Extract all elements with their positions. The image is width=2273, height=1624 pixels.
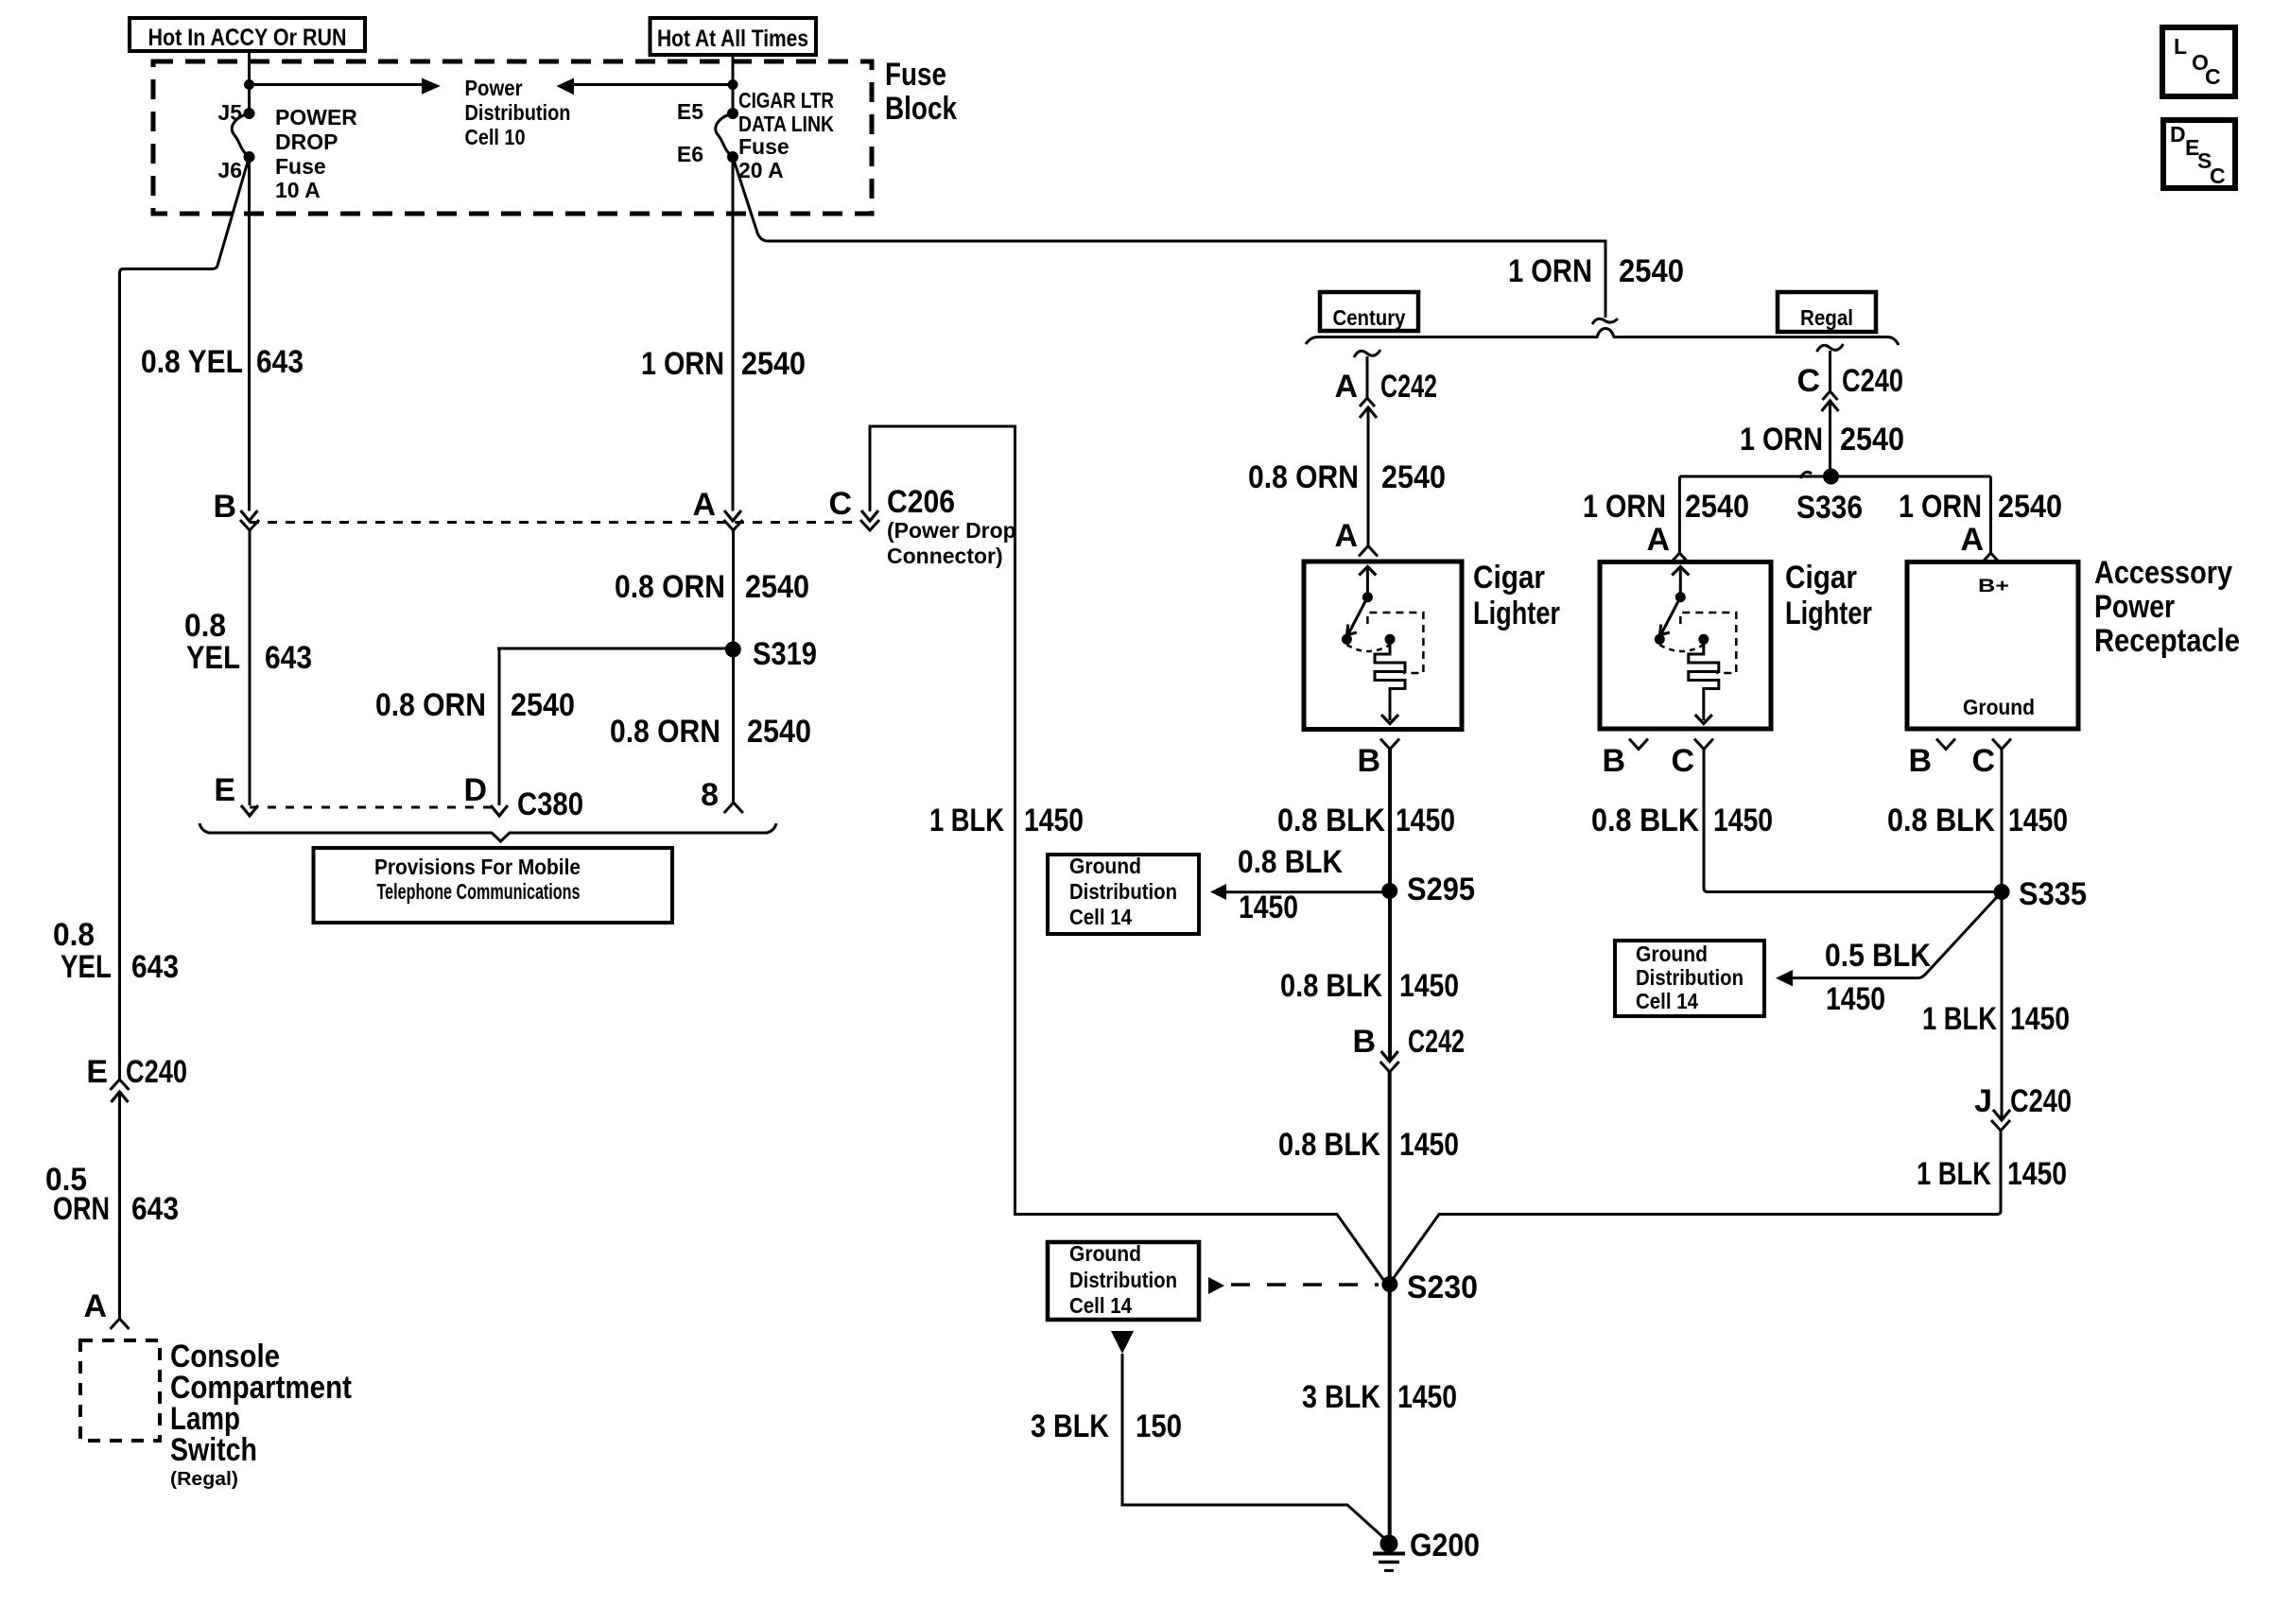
svg-text:20 A: 20 A <box>738 158 784 182</box>
svg-text:L: L <box>2174 34 2187 59</box>
svg-text:Fuse: Fuse <box>885 57 946 93</box>
svg-text:Cell 14: Cell 14 <box>1636 989 1698 1013</box>
svg-text:0.8 BLK: 0.8 BLK <box>1591 803 1699 838</box>
svg-text:S319: S319 <box>753 636 817 672</box>
svg-text:Ground: Ground <box>1636 942 1708 966</box>
svg-text:Power: Power <box>465 76 523 100</box>
svg-text:8: 8 <box>701 777 719 813</box>
svg-text:S230: S230 <box>1407 1270 1478 1305</box>
svg-text:POWER: POWER <box>275 105 357 130</box>
svg-text:0.8 BLK: 0.8 BLK <box>1280 968 1382 1004</box>
svg-text:Regal: Regal <box>1800 305 1853 330</box>
svg-text:C242: C242 <box>1380 369 1437 405</box>
svg-text:B: B <box>213 489 236 525</box>
svg-text:B+: B+ <box>1978 577 2009 596</box>
svg-text:150: 150 <box>1136 1408 1182 1444</box>
svg-text:0.8 ORN: 0.8 ORN <box>375 687 486 723</box>
svg-text:Connector): Connector) <box>887 544 1003 568</box>
svg-text:C: C <box>1796 363 1820 399</box>
svg-text:C242: C242 <box>1408 1024 1465 1060</box>
svg-text:1450: 1450 <box>1397 1379 1457 1415</box>
svg-text:2540: 2540 <box>1685 489 1749 525</box>
svg-text:1450: 1450 <box>1239 890 1298 925</box>
svg-text:0.8 ORN: 0.8 ORN <box>610 714 720 750</box>
svg-text:0.5 BLK: 0.5 BLK <box>1825 938 1931 974</box>
svg-text:2540: 2540 <box>1998 489 2062 525</box>
svg-text:C: C <box>1671 743 1694 779</box>
svg-text:Fuse: Fuse <box>738 134 789 159</box>
svg-text:(Power Drop: (Power Drop <box>887 518 1016 543</box>
svg-text:B: B <box>1908 743 1932 779</box>
svg-text:Cigar: Cigar <box>1785 560 1857 596</box>
svg-text:2540: 2540 <box>511 687 575 723</box>
svg-text:Distribution: Distribution <box>1069 1268 1177 1292</box>
svg-text:2540: 2540 <box>1619 253 1684 289</box>
svg-text:E: E <box>214 772 235 808</box>
svg-text:1450: 1450 <box>1713 803 1773 838</box>
svg-text:Provisions For Mobile: Provisions For Mobile <box>374 855 581 879</box>
svg-text:C240: C240 <box>1842 363 1903 399</box>
svg-text:Lighter: Lighter <box>1473 596 1560 631</box>
svg-text:Telephone Communications: Telephone Communications <box>377 879 581 904</box>
svg-text:1450: 1450 <box>1399 968 1459 1004</box>
svg-text:2540: 2540 <box>1381 459 1446 495</box>
svg-text:E5: E5 <box>677 99 703 124</box>
svg-text:G200: G200 <box>1410 1528 1480 1564</box>
svg-text:Distribution: Distribution <box>1636 965 1744 990</box>
svg-text:B: B <box>1602 743 1625 779</box>
svg-text:E: E <box>86 1054 108 1090</box>
svg-text:Fuse: Fuse <box>275 154 326 179</box>
svg-text:643: 643 <box>265 640 312 676</box>
svg-text:CIGAR LTR: CIGAR LTR <box>738 88 834 112</box>
svg-text:1 BLK: 1 BLK <box>929 803 1004 838</box>
svg-text:0.8 BLK: 0.8 BLK <box>1887 803 1995 838</box>
svg-text:A: A <box>1334 369 1358 405</box>
svg-text:1450: 1450 <box>1024 803 1084 838</box>
svg-text:Cell 10: Cell 10 <box>465 125 526 149</box>
svg-text:J6: J6 <box>217 158 242 182</box>
svg-text:ORN: ORN <box>53 1191 110 1227</box>
svg-text:0.8: 0.8 <box>53 917 95 953</box>
svg-text:1450: 1450 <box>1399 1127 1459 1163</box>
svg-text:YEL: YEL <box>186 640 240 676</box>
svg-text:2540: 2540 <box>745 569 809 605</box>
svg-text:Receptacle: Receptacle <box>2094 623 2240 659</box>
svg-text:1 BLK: 1 BLK <box>1917 1156 1991 1192</box>
svg-text:B: B <box>1352 1024 1376 1060</box>
svg-text:Century: Century <box>1333 305 1406 330</box>
svg-text:1450: 1450 <box>1396 803 1455 838</box>
svg-text:S335: S335 <box>2019 876 2087 912</box>
svg-text:C240: C240 <box>126 1054 187 1090</box>
svg-text:S336: S336 <box>1796 490 1863 526</box>
svg-text:2540: 2540 <box>741 346 806 382</box>
svg-text:1450: 1450 <box>2007 1156 2067 1192</box>
svg-text:A: A <box>1334 518 1358 554</box>
svg-text:1450: 1450 <box>1826 981 1885 1017</box>
svg-text:B: B <box>1357 743 1380 779</box>
svg-text:0.8 ORN: 0.8 ORN <box>615 569 725 605</box>
svg-text:0.8 BLK: 0.8 BLK <box>1277 803 1385 838</box>
svg-text:C: C <box>2210 164 2226 188</box>
svg-text:0.8 ORN: 0.8 ORN <box>1248 459 1359 495</box>
svg-text:A: A <box>83 1288 107 1324</box>
svg-text:Power: Power <box>2094 589 2175 625</box>
svg-text:Block: Block <box>885 91 957 127</box>
svg-text:J5: J5 <box>217 100 242 125</box>
svg-text:1 BLK: 1 BLK <box>1922 1001 1997 1037</box>
svg-text:C380: C380 <box>517 786 583 822</box>
svg-text:1 ORN: 1 ORN <box>641 346 724 382</box>
svg-text:A: A <box>1646 522 1670 558</box>
svg-text:Ground: Ground <box>1069 854 1141 878</box>
svg-text:643: 643 <box>131 1191 179 1227</box>
svg-text:1450: 1450 <box>2010 1001 2070 1037</box>
svg-text:C: C <box>1971 743 1995 779</box>
svg-text:1 ORN: 1 ORN <box>1740 422 1823 458</box>
svg-text:1 ORN: 1 ORN <box>1899 489 1982 525</box>
svg-text:(Regal): (Regal) <box>170 1469 238 1490</box>
svg-text:Distribution: Distribution <box>465 100 571 125</box>
svg-text:J: J <box>1974 1083 1992 1119</box>
svg-text:YEL: YEL <box>61 949 112 985</box>
svg-text:643: 643 <box>131 949 179 985</box>
svg-text:Hot At All Times: Hot At All Times <box>657 26 808 52</box>
svg-text:2540: 2540 <box>1840 422 1904 458</box>
svg-text:DROP: DROP <box>275 130 338 154</box>
svg-text:Ground: Ground <box>1963 695 2035 719</box>
svg-text:Cell 14: Cell 14 <box>1069 1293 1132 1318</box>
svg-text:1 ORN: 1 ORN <box>1583 489 1666 525</box>
svg-text:1 ORN: 1 ORN <box>1508 253 1592 289</box>
svg-text:0.8 BLK: 0.8 BLK <box>1238 844 1343 880</box>
svg-text:D: D <box>2170 122 2186 147</box>
svg-text:Accessory: Accessory <box>2094 555 2232 591</box>
svg-text:Cigar: Cigar <box>1473 560 1545 596</box>
svg-text:3 BLK: 3 BLK <box>1302 1379 1380 1415</box>
svg-text:3 BLK: 3 BLK <box>1031 1408 1109 1444</box>
svg-text:S295: S295 <box>1407 872 1475 907</box>
svg-text:C: C <box>2205 64 2221 89</box>
svg-text:C206: C206 <box>887 484 955 520</box>
svg-text:DATA LINK: DATA LINK <box>738 112 834 136</box>
svg-text:A: A <box>692 487 716 523</box>
svg-text:Distribution: Distribution <box>1069 879 1177 904</box>
svg-text:10 A: 10 A <box>275 178 321 202</box>
svg-text:Lighter: Lighter <box>1785 596 1872 631</box>
svg-text:0.8 YEL: 0.8 YEL <box>141 344 243 380</box>
svg-text:C: C <box>828 486 852 522</box>
svg-text:1450: 1450 <box>2008 803 2068 838</box>
svg-text:D: D <box>463 772 487 808</box>
svg-text:Cell 14: Cell 14 <box>1069 905 1132 929</box>
svg-text:E6: E6 <box>677 142 703 166</box>
svg-text:C240: C240 <box>2010 1083 2072 1119</box>
svg-text:0.8 BLK: 0.8 BLK <box>1278 1127 1380 1163</box>
svg-text:Switch: Switch <box>170 1432 257 1468</box>
svg-text:Ground: Ground <box>1069 1241 1141 1266</box>
svg-text:Hot In ACCY Or RUN: Hot In ACCY Or RUN <box>148 25 347 51</box>
svg-text:643: 643 <box>256 344 304 380</box>
svg-text:0.8: 0.8 <box>184 608 226 644</box>
svg-text:2540: 2540 <box>747 714 811 750</box>
svg-text:A: A <box>1960 522 1984 558</box>
